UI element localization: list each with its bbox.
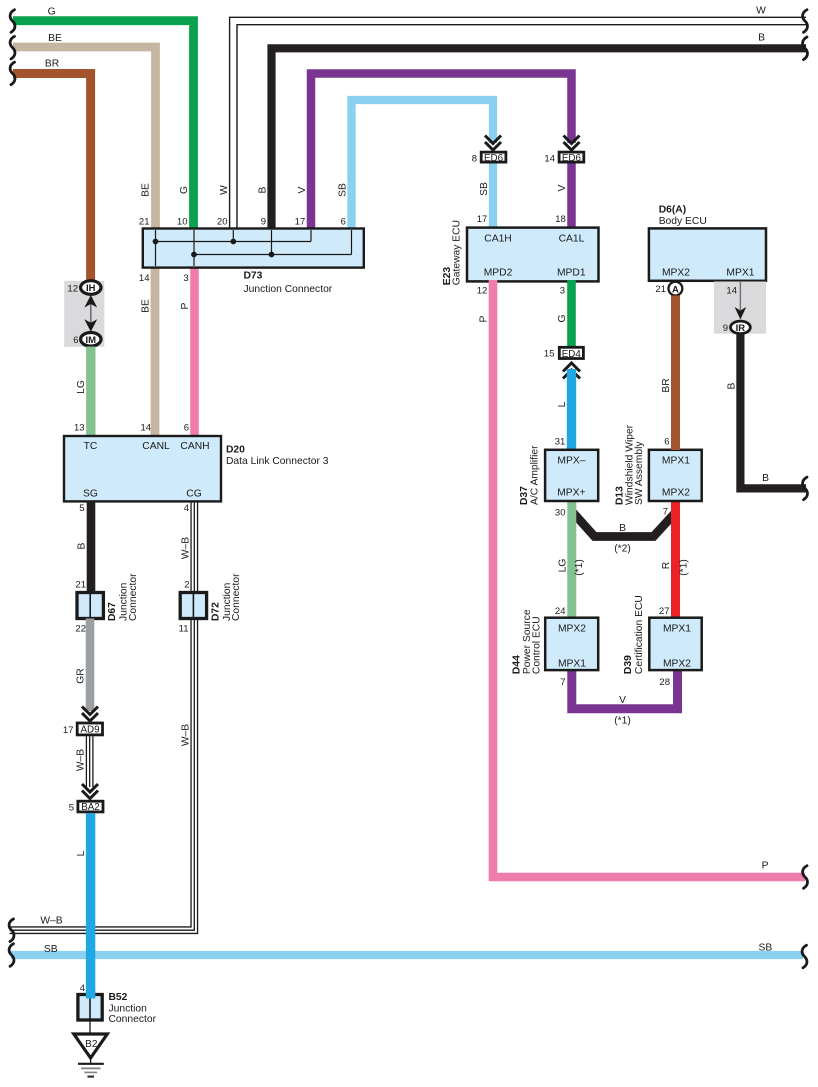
svg-text:BE: BE — [141, 299, 152, 313]
svg-text:MPD2: MPD2 — [484, 267, 513, 278]
svg-text:Junction: Junction — [109, 1003, 148, 1014]
wire L (ED4 to D37 pin 31) — [555, 369, 572, 450]
ground B2 — [74, 1021, 108, 1077]
svg-text:CA1H: CA1H — [484, 234, 511, 245]
svg-text:(*1): (*1) — [614, 716, 631, 727]
connector AD9 pin 17 — [63, 723, 103, 736]
svg-text:28: 28 — [659, 677, 670, 688]
svg-text:MPX1: MPX1 — [662, 456, 690, 467]
svg-text:W: W — [219, 185, 230, 195]
svg-text:D72: D72 — [210, 602, 221, 621]
connector IM pin 6 — [73, 333, 101, 347]
ECU D44 Power Source Control ECU — [512, 609, 599, 688]
svg-text:TC: TC — [84, 441, 98, 452]
svg-text:14: 14 — [544, 154, 555, 165]
svg-text:3: 3 — [183, 273, 188, 284]
svg-text:MPX1: MPX1 — [663, 623, 691, 634]
svg-text:P: P — [479, 315, 490, 322]
wire SB (ED6 to E23 pin 17) — [477, 164, 493, 231]
junction connector B52 — [78, 992, 157, 1025]
ECU D6(A) Body ECU — [649, 205, 766, 281]
svg-text:B52: B52 — [109, 992, 128, 1003]
chevron arrows into ED6 no.2 — [564, 136, 580, 151]
squiggle left W-B — [9, 919, 14, 942]
wire BR (brown, top-left to connector IH) — [13, 59, 91, 283]
wire LG (D37 pin 30 to D44 pin 24) — [555, 501, 585, 618]
svg-text:GR: GR — [76, 668, 87, 683]
connector pass-through IR (gray panel) — [714, 282, 766, 334]
svg-text:SB: SB — [759, 943, 773, 954]
svg-text:IM: IM — [86, 335, 97, 346]
wire BR (connector A to D13 pin 6) — [661, 296, 676, 451]
svg-text:BA2: BA2 — [81, 802, 100, 813]
svg-text:6: 6 — [184, 423, 189, 434]
svg-text:B: B — [77, 542, 88, 549]
svg-text:MPD1: MPD1 — [557, 267, 586, 278]
svg-text:MPX2: MPX2 — [558, 623, 586, 634]
svg-text:ED4: ED4 — [562, 349, 582, 360]
wire V (ED6 to E23 pin 18) — [555, 164, 571, 231]
svg-text:CANH: CANH — [180, 441, 209, 452]
svg-text:W–B: W–B — [180, 724, 191, 746]
svg-text:D67: D67 — [107, 602, 118, 621]
svg-text:BR: BR — [45, 59, 59, 70]
svg-text:17: 17 — [295, 217, 306, 228]
svg-text:9: 9 — [723, 323, 728, 334]
svg-text:MPX2: MPX2 — [662, 487, 690, 498]
svg-text:2: 2 — [184, 580, 189, 591]
svg-text:CG: CG — [186, 489, 201, 500]
svg-text:SB: SB — [44, 944, 58, 955]
svg-text:G: G — [557, 314, 568, 322]
svg-text:5: 5 — [79, 503, 84, 514]
svg-text:Certification ECU: Certification ECU — [634, 595, 645, 674]
wire W-B (D72 pin 11 to left edge) — [10, 619, 198, 934]
svg-text:(*1): (*1) — [679, 559, 690, 576]
wire G (green, top-left to D73 pin 10) — [13, 7, 194, 231]
svg-text:CA1L: CA1L — [559, 234, 585, 245]
ECU D20 Data Link Connector 3 — [64, 436, 329, 514]
squiggle right P — [803, 866, 808, 889]
wire R (D13 pin 7 to D39 pin 27) — [659, 501, 690, 618]
wire GR (D67 pin 22 to AD9) — [76, 619, 90, 712]
svg-text:L: L — [557, 401, 568, 407]
wire SB (sky blue, D73 pin 6 to ED6 connector) — [352, 100, 494, 230]
squiggle left BR — [10, 62, 15, 85]
svg-text:12: 12 — [67, 284, 78, 295]
svg-text:3: 3 — [560, 286, 565, 297]
svg-text:B: B — [619, 523, 626, 534]
svg-text:D20: D20 — [226, 445, 245, 456]
wire B jumper (D37 pin 30 to D13 pin 7) — [573, 513, 676, 555]
svg-text:5: 5 — [69, 803, 74, 814]
svg-text:14: 14 — [141, 423, 152, 434]
svg-text:ED6: ED6 — [562, 153, 582, 164]
svg-text:4: 4 — [80, 983, 85, 994]
svg-text:D6(A): D6(A) — [659, 205, 686, 216]
svg-text:11: 11 — [179, 624, 189, 635]
wire name labels above D73 — [141, 183, 349, 197]
svg-text:(*1): (*1) — [574, 559, 585, 576]
wire P (pink, D73 pin 3 to D20 pin 6) — [180, 266, 194, 437]
junction connector D73 — [139, 217, 364, 296]
squiggle right B lower — [803, 477, 808, 500]
svg-text:BR: BR — [661, 378, 672, 392]
svg-text:SB: SB — [337, 183, 348, 197]
chevron arrows into ED6 no.1 — [485, 136, 501, 151]
wire V (violet, D73 pin 17 to ED6 connector) — [311, 74, 572, 231]
wire V (D44 pin 7 to D39 pin 28) — [572, 668, 678, 727]
ECU E23 Gateway ECU — [442, 220, 599, 297]
svg-text:17: 17 — [477, 214, 488, 225]
wire W (white w/ black outline, D73 pin 20 to right edge) — [233, 6, 806, 231]
svg-text:10: 10 — [177, 217, 188, 228]
squiggle left BE — [10, 36, 15, 59]
svg-text:SW Assembly: SW Assembly — [634, 441, 645, 505]
svg-text:MPX1: MPX1 — [558, 658, 586, 669]
svg-text:A/C Amplifier: A/C Amplifier — [530, 445, 541, 505]
chevron arrows out of ED4 — [563, 363, 580, 379]
chevron arrows into BA2 — [82, 784, 98, 799]
connector BA2 pin 5 — [69, 801, 103, 813]
svg-text:MPX2: MPX2 — [663, 658, 691, 669]
svg-text:Data Link Connector 3: Data Link Connector 3 — [226, 456, 329, 467]
svg-text:15: 15 — [544, 349, 555, 360]
svg-text:V: V — [297, 186, 308, 193]
svg-text:R: R — [661, 562, 672, 569]
connector pass-through IH/IM (gray panel) — [64, 281, 104, 347]
svg-text:21: 21 — [139, 217, 150, 228]
wire BE (beige, top-left to D73 pin 21) — [13, 33, 156, 230]
svg-text:21: 21 — [655, 284, 666, 295]
svg-text:9: 9 — [261, 217, 266, 228]
wire W-B (AD9 to BA2) — [76, 736, 93, 787]
svg-text:V: V — [619, 695, 626, 706]
svg-text:B: B — [762, 473, 769, 484]
svg-text:6: 6 — [341, 217, 346, 228]
svg-text:W–B: W–B — [180, 537, 191, 559]
squiggle right W — [803, 10, 808, 33]
connector IH pin 12 — [67, 281, 101, 295]
svg-text:P: P — [180, 302, 191, 309]
svg-text:LG: LG — [557, 559, 568, 573]
svg-text:13: 13 — [74, 423, 85, 434]
svg-text:Control ECU: Control ECU — [532, 616, 543, 674]
svg-text:G: G — [179, 186, 190, 194]
svg-text:SG: SG — [83, 489, 98, 500]
svg-text:B: B — [257, 186, 268, 193]
wire B (black, D73 pin 9 to right edge) — [272, 33, 807, 231]
svg-text:D73: D73 — [244, 271, 263, 282]
svg-text:7: 7 — [663, 507, 668, 518]
svg-text:20: 20 — [217, 217, 228, 228]
svg-text:6: 6 — [73, 335, 78, 346]
svg-text:14: 14 — [139, 273, 150, 284]
svg-text:A: A — [672, 284, 679, 295]
connector A (D6 pin 21) — [655, 282, 682, 296]
svg-text:7: 7 — [560, 677, 565, 688]
junction connector D67 — [75, 573, 138, 635]
svg-text:L: L — [76, 850, 87, 856]
wire SB (bottom bus, left edge to right edge) — [11, 943, 803, 956]
svg-text:SB: SB — [479, 182, 490, 196]
wire BE (D73 pin 14 to D20 pin 14) — [141, 266, 155, 437]
svg-text:W–B: W–B — [40, 916, 62, 927]
svg-text:Connector: Connector — [109, 1014, 157, 1025]
svg-text:27: 27 — [659, 606, 670, 617]
svg-text:18: 18 — [555, 214, 566, 225]
squiggle right SB — [802, 945, 807, 968]
ECU D39 Certification ECU — [623, 595, 702, 688]
connector ED6 pin 14 — [544, 152, 583, 164]
svg-text:BE: BE — [141, 183, 152, 197]
svg-text:24: 24 — [555, 606, 566, 617]
wire P (E23 pin 12 to right edge, long pink) — [479, 280, 805, 877]
svg-text:Gateway ECU: Gateway ECU — [452, 220, 463, 285]
svg-text:4: 4 — [184, 503, 189, 514]
svg-text:D37: D37 — [519, 486, 530, 505]
svg-text:Connector: Connector — [231, 573, 242, 621]
svg-text:Body ECU: Body ECU — [659, 216, 707, 227]
svg-text:12: 12 — [477, 286, 488, 297]
connector ED6 pin 8 — [472, 152, 506, 164]
svg-text:Connector: Connector — [128, 573, 139, 621]
squiggle left G — [10, 10, 15, 33]
svg-text:MPX1: MPX1 — [726, 267, 754, 278]
svg-text:AD9: AD9 — [80, 724, 99, 735]
wire B (IR to right edge) — [726, 334, 806, 488]
svg-text:ED6: ED6 — [484, 153, 504, 164]
svg-text:6: 6 — [664, 437, 669, 448]
svg-text:MPX2: MPX2 — [662, 267, 690, 278]
svg-text:CANL: CANL — [142, 441, 170, 452]
svg-text:14: 14 — [726, 286, 737, 297]
svg-text:MPX+: MPX+ — [557, 487, 585, 498]
svg-text:G: G — [48, 7, 56, 18]
svg-text:30: 30 — [555, 508, 566, 519]
svg-text:31: 31 — [555, 437, 566, 448]
svg-text:MPX–: MPX– — [557, 456, 585, 467]
svg-text:W–B: W–B — [76, 749, 87, 771]
svg-text:B2: B2 — [85, 1039, 98, 1050]
wire L stub into B52 — [86, 990, 95, 999]
svg-text:IR: IR — [736, 323, 746, 334]
svg-text:22: 22 — [75, 624, 86, 635]
svg-text:P: P — [762, 861, 769, 872]
wire LG (IM to D20 pin 13) — [74, 347, 189, 438]
wire W-B (D20 pin 4 to D72 pin 2) — [180, 501, 197, 593]
svg-text:(*2): (*2) — [614, 544, 631, 555]
squiggle right B — [803, 37, 808, 60]
svg-text:W: W — [756, 6, 766, 17]
ECU D37 A/C Amplifier — [519, 445, 598, 505]
wire G (E23 pin 3 to ED4) — [557, 280, 571, 347]
connector ED4 pin 15 — [544, 347, 583, 360]
svg-text:21: 21 — [75, 580, 86, 591]
connector IR pin 9 — [723, 321, 751, 334]
squiggle left SB — [9, 944, 14, 967]
svg-text:D44: D44 — [512, 655, 523, 674]
wire L (BA2 to B52, crosses W-B and SB) — [76, 813, 91, 995]
svg-text:Junction Connector: Junction Connector — [244, 284, 333, 295]
chevron arrows into AD9 — [82, 707, 98, 722]
wire B (D20 pin 5 to D67 pin 21) — [75, 501, 91, 593]
svg-text:B: B — [726, 382, 737, 389]
svg-text:B: B — [758, 33, 765, 44]
svg-text:LG: LG — [76, 380, 87, 394]
svg-text:BE: BE — [48, 33, 62, 44]
svg-text:8: 8 — [472, 154, 477, 165]
junction connector D72 — [179, 573, 242, 635]
svg-text:D39: D39 — [623, 655, 634, 674]
bidirectional arrow IH-IM — [84, 295, 97, 332]
svg-text:IH: IH — [86, 283, 96, 294]
svg-text:V: V — [557, 184, 568, 191]
ECU D13 Windshield Wiper SW Assembly — [615, 424, 702, 505]
svg-text:17: 17 — [63, 725, 74, 736]
